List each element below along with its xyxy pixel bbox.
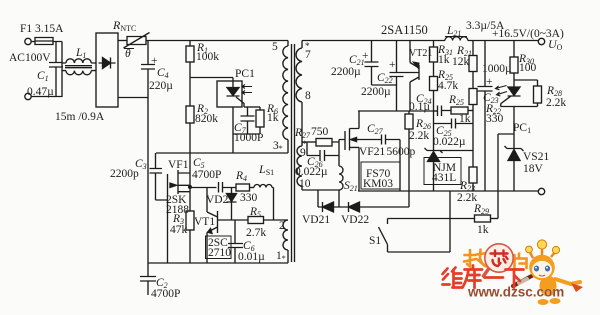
capacitor C4 220u electrolytic bbox=[141, 41, 155, 264]
svg-text:2200p: 2200p bbox=[110, 168, 139, 180]
diode VD21 bbox=[318, 202, 349, 212]
svg-text:1000µ: 1000µ bbox=[482, 63, 512, 75]
svg-text:KM03: KM03 bbox=[363, 178, 393, 190]
svg-text:2200µ: 2200µ bbox=[361, 86, 391, 98]
svg-text:220µ: 220µ bbox=[149, 80, 173, 92]
svg-text:2.2k: 2.2k bbox=[546, 97, 566, 109]
capacitor C24 0.1u bbox=[434, 106, 452, 117]
transformer T secondary winding 7-8 bbox=[296, 41, 302, 143]
svg-text:18V: 18V bbox=[523, 163, 544, 175]
svg-text:1k: 1k bbox=[459, 113, 471, 125]
wire primary ground rail bbox=[148, 262, 288, 264]
fuse F1 3.15A bbox=[31, 38, 62, 45]
optocoupler PC1 phototransistor bbox=[217, 81, 242, 107]
wire pin10 bbox=[302, 189, 339, 191]
resistor R25 4.7k bbox=[430, 77, 438, 91]
wire AC bottom bbox=[31, 96, 62, 98]
inductor L21 3.3u/5A bbox=[445, 37, 538, 41]
mosfet VF21 FS70KM03 bbox=[339, 111, 359, 191]
capacitor C22 2200u bbox=[372, 41, 404, 112]
capacitor C5 4700P bbox=[219, 182, 237, 193]
wire top DC rail bbox=[146, 40, 288, 42]
svg-text:431L: 431L bbox=[432, 172, 456, 184]
wire bridge bottom output bbox=[118, 97, 148, 99]
shunt regulator NJM431L bbox=[425, 124, 443, 192]
resistor R3 47k bbox=[189, 188, 191, 212]
svg-text:2SA1150: 2SA1150 bbox=[381, 23, 428, 37]
wire pin9 node bbox=[302, 142, 307, 156]
wire secondary mid rail bbox=[358, 110, 438, 112]
wire PC1 emitter bbox=[244, 106, 260, 108]
transistor VT1 2SC2710 bbox=[207, 188, 218, 264]
svg-text:0.022µ: 0.022µ bbox=[433, 136, 466, 148]
node AC input terminal top bbox=[25, 38, 31, 44]
wire C7 R6 join bbox=[233, 107, 260, 153]
svg-text:θ: θ bbox=[125, 48, 131, 60]
node output terminal positive bbox=[538, 38, 544, 44]
svg-text:+: + bbox=[486, 76, 493, 88]
svg-text:4700P: 4700P bbox=[192, 169, 221, 181]
svg-text:1000P: 1000P bbox=[234, 132, 263, 144]
svg-text:1k: 1k bbox=[267, 112, 279, 124]
box FS70KM03 label bbox=[361, 162, 400, 189]
svg-text:0.1µ: 0.1µ bbox=[409, 101, 430, 113]
svg-text:2710: 2710 bbox=[208, 247, 231, 259]
svg-text:2.2k: 2.2k bbox=[409, 130, 429, 142]
svg-text:VT21: VT21 bbox=[409, 48, 432, 59]
wire gate drive line bbox=[190, 187, 217, 189]
svg-text:2200µ: 2200µ bbox=[331, 66, 361, 78]
svg-text:0.022µ: 0.022µ bbox=[295, 166, 328, 178]
capacitor C7 1000P bbox=[241, 107, 255, 134]
svg-text:2: 2 bbox=[279, 220, 285, 232]
svg-text:VS21: VS21 bbox=[523, 151, 549, 163]
svg-text:330: 330 bbox=[486, 113, 504, 125]
svg-text:100: 100 bbox=[519, 62, 537, 74]
wire S1 right drop bbox=[388, 191, 451, 252]
svg-text:4.7k: 4.7k bbox=[438, 80, 458, 92]
wire R28 top bbox=[514, 80, 538, 86]
svg-text:0.01µ: 0.01µ bbox=[238, 251, 265, 263]
resistor R23 2.2k bbox=[469, 167, 477, 183]
svg-text:PC1: PC1 bbox=[235, 68, 255, 80]
diode VD22 bbox=[349, 202, 410, 212]
zener VS21 18V bbox=[505, 146, 524, 191]
capacitor C27 5600p bbox=[359, 135, 400, 192]
svg-text:4700P: 4700P bbox=[151, 288, 180, 300]
capacitor C2 4700P bbox=[140, 263, 156, 295]
svg-text:7: 7 bbox=[305, 49, 311, 61]
svg-text:9: 9 bbox=[300, 147, 306, 159]
saturable inductor S21 bbox=[339, 142, 343, 207]
resistor R24 bbox=[469, 89, 477, 105]
wire S1 branch tee bbox=[498, 134, 514, 219]
svg-text:330: 330 bbox=[240, 192, 258, 204]
svg-text:0.47µ: 0.47µ bbox=[27, 86, 54, 98]
capacitor C3 2200p bbox=[150, 153, 168, 200]
node VF1 source junction bbox=[188, 185, 192, 189]
box 2SC2710 label bbox=[206, 236, 232, 259]
watermark text weiku yixia bbox=[443, 266, 524, 289]
svg-text:750: 750 bbox=[311, 126, 329, 138]
switch S1 bbox=[379, 219, 388, 253]
node output terminal negative bbox=[538, 188, 544, 194]
wire PC1 led cathode down bbox=[513, 107, 515, 149]
svg-text:1k: 1k bbox=[477, 224, 489, 236]
svg-text:VD21: VD21 bbox=[302, 214, 330, 226]
resistor R25 1k bbox=[451, 107, 468, 114]
wire VT1 base line bbox=[218, 219, 249, 221]
capacitor C26 0.022u bbox=[307, 150, 339, 161]
transformer core bbox=[292, 44, 295, 262]
node AC input terminal bottom bbox=[25, 93, 31, 99]
wire secondary ground rail bbox=[358, 190, 538, 192]
optocoupler PC1 led bbox=[501, 80, 521, 107]
svg-text:F1 3.15A: F1 3.15A bbox=[20, 23, 64, 35]
capacitor C23 1000u bbox=[478, 41, 493, 192]
transformer T feedback winding 2-1 bbox=[283, 220, 288, 263]
svg-text:47k: 47k bbox=[170, 224, 188, 236]
svg-text:VT1: VT1 bbox=[194, 216, 215, 228]
watermark chip logo circle bbox=[485, 244, 513, 272]
resistor R2 820k bbox=[186, 106, 194, 123]
wire AC top vertical bbox=[61, 42, 63, 98]
resistor R31 1k bbox=[433, 41, 435, 48]
wire bridge top output bbox=[118, 40, 127, 42]
svg-text:820k: 820k bbox=[195, 113, 218, 125]
resistor R21 12k bbox=[472, 41, 474, 56]
diode VD2 bbox=[227, 188, 237, 221]
svg-text:VF21: VF21 bbox=[359, 146, 385, 158]
svg-text:5600p: 5600p bbox=[387, 146, 416, 158]
svg-text:2.7k: 2.7k bbox=[246, 227, 266, 239]
resistor R4 330 bbox=[236, 184, 250, 191]
svg-text:12k: 12k bbox=[452, 56, 470, 68]
svg-text:AC100V: AC100V bbox=[9, 52, 51, 64]
svg-text:VD22: VD22 bbox=[341, 214, 369, 226]
wire VD21 drop bbox=[317, 190, 319, 207]
wire PC1 collector tap bbox=[190, 78, 233, 88]
resistor R30 100 bbox=[513, 41, 515, 58]
svg-text:+: + bbox=[362, 50, 369, 62]
capacitor C6 0.01u bbox=[228, 220, 243, 263]
capacitor C21 2200u bbox=[365, 41, 379, 86]
bridge rectifier bbox=[96, 33, 118, 107]
svg-text:+: + bbox=[389, 59, 396, 71]
svg-text:+: + bbox=[151, 55, 158, 67]
wire top output rail bbox=[302, 40, 445, 42]
svg-text:5: 5 bbox=[272, 41, 278, 53]
svg-text:VF1: VF1 bbox=[168, 159, 189, 171]
svg-text:10: 10 bbox=[299, 178, 311, 190]
svg-text:www.dzsc.com: www.dzsc.com bbox=[467, 285, 564, 300]
svg-text:1k: 1k bbox=[438, 54, 450, 66]
svg-text:VD2: VD2 bbox=[206, 194, 229, 206]
svg-text:S1: S1 bbox=[369, 235, 381, 247]
resistor R28 2.2k bbox=[534, 86, 542, 103]
wire drain rail to pin3 bbox=[156, 152, 288, 154]
transistor VT21 2SA1150 bbox=[404, 41, 420, 112]
inductor LS1 bbox=[254, 185, 274, 221]
svg-text:100k: 100k bbox=[196, 51, 219, 63]
resistor R6 1k bbox=[259, 107, 261, 110]
mosfet VF1 2SK2188 bbox=[168, 170, 191, 202]
resistor R5 2.7k bbox=[248, 217, 264, 224]
wire S1 top bbox=[388, 218, 475, 220]
capacitor C1 0.47u bbox=[49, 42, 63, 97]
watermark mascot bbox=[513, 240, 583, 305]
svg-text:15m /0.9A: 15m /0.9A bbox=[55, 111, 105, 123]
watermark text zhao pian bbox=[464, 250, 487, 267]
resistor R27 750 bbox=[307, 141, 316, 143]
transformer T secondary winding 9-10 bbox=[297, 142, 302, 190]
resistor R29 1k bbox=[475, 215, 491, 222]
capacitor C25 0.022u bbox=[434, 119, 474, 129]
wire NJM431 cathode to R23 bbox=[440, 150, 473, 152]
resistor R26 2.2k bbox=[408, 111, 410, 114]
thermistor RNTC bbox=[124, 33, 150, 49]
svg-text:8: 8 bbox=[305, 90, 311, 102]
resistor R1 100k bbox=[189, 41, 191, 47]
inductor L1 common-mode choke 15m/0.9A bbox=[62, 59, 96, 63]
transformer T primary winding 5-3 bbox=[283, 41, 288, 154]
